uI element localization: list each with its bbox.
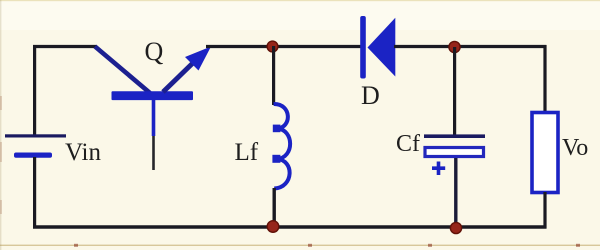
wire Vin bottom lead xyxy=(33,157,36,228)
wire right vertical bottom xyxy=(543,192,546,228)
node bottom-left junction dot xyxy=(267,221,279,233)
resistor load Vo body xyxy=(532,113,558,193)
wire inductor top lead xyxy=(272,46,275,105)
wire capacitor top lead xyxy=(453,47,456,135)
scan artifact left edge xyxy=(0,0,2,250)
wire top right segment xyxy=(394,45,546,48)
label D xyxy=(361,81,380,110)
svg-text:Vin: Vin xyxy=(65,139,101,166)
battery Vin bottom plate xyxy=(14,153,52,158)
wire base lead lower (black part) xyxy=(152,136,155,170)
wire right vertical top (to load) xyxy=(543,45,546,112)
diode D cathode bar xyxy=(360,16,366,79)
wire capacitor bottom lead xyxy=(454,158,457,228)
svg-text:Vo: Vo xyxy=(562,135,588,161)
wire top-left horizontal segment xyxy=(33,45,97,48)
wire bottom rail xyxy=(33,225,547,229)
scan artifact top line xyxy=(0,0,600,1)
svg-text:Lf: Lf xyxy=(235,139,259,166)
node bottom-right junction dot xyxy=(450,222,461,233)
inductor Lf coil xyxy=(272,104,290,189)
transistor Q base lead (blue part) xyxy=(152,100,156,136)
capacitor Cf top plate xyxy=(424,134,485,138)
svg-text:D: D xyxy=(361,81,380,110)
capacitor Cf bottom plate box xyxy=(425,148,484,157)
node top-left junction dot xyxy=(267,41,278,52)
transistor Q collector line xyxy=(95,47,150,94)
label Lf xyxy=(235,139,259,166)
scan artifact bottom line xyxy=(0,244,600,247)
label Q xyxy=(145,37,164,66)
svg-text:Q: Q xyxy=(145,37,164,66)
label Vo xyxy=(562,135,588,161)
diode D triangle xyxy=(368,18,396,77)
node top-right junction dot xyxy=(449,41,460,52)
transistor Q base bar xyxy=(112,91,194,100)
transistor Q emitter line xyxy=(163,59,197,92)
label Vin xyxy=(65,139,101,166)
battery Vin top plate xyxy=(5,134,66,137)
wire left vertical (Vin top lead) xyxy=(33,45,36,135)
label Cf xyxy=(396,131,420,157)
transistor Q emitter arrowhead xyxy=(185,47,211,71)
wire inductor bottom lead xyxy=(273,188,276,227)
svg-text:Cf: Cf xyxy=(396,131,420,157)
wire top middle segment xyxy=(206,45,362,48)
capacitor Cf polarity plus xyxy=(432,162,445,176)
